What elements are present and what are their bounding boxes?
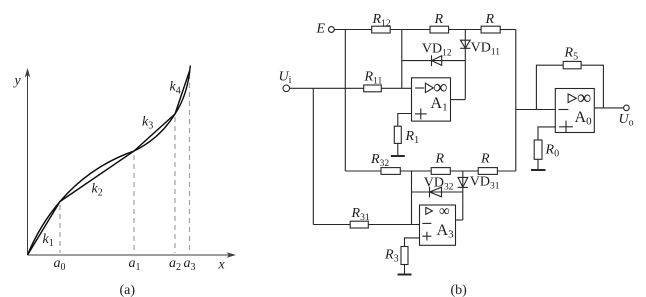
wire R3 to ground	[404, 265, 406, 275]
chord k4	[175, 71, 190, 114]
svg-text:k1: k1	[43, 232, 54, 249]
svg-text:VD32: VD32	[424, 176, 454, 193]
svg-text:(a): (a)	[120, 283, 136, 297]
wire summing vertical	[515, 30, 517, 172]
diode VD11	[460, 40, 470, 48]
resistor R (top right)	[481, 26, 500, 33]
x-axis	[28, 252, 237, 258]
svg-text:R: R	[485, 12, 495, 27]
svg-text:∞: ∞	[439, 203, 450, 219]
svg-text:VD12: VD12	[422, 42, 452, 59]
wire R12 to node	[390, 29, 430, 31]
resistor R31	[350, 221, 368, 228]
resistor R0	[534, 140, 542, 159]
svg-text:VD31: VD31	[470, 175, 500, 192]
resistor R5	[563, 61, 581, 68]
svg-text:VD11: VD11	[471, 41, 501, 58]
wire A0 plus input	[538, 127, 555, 140]
svg-text:∞: ∞	[433, 77, 447, 99]
svg-text:R12: R12	[372, 12, 391, 29]
svg-text:Uo: Uo	[619, 112, 634, 129]
wire A1 plus input	[398, 114, 412, 127]
resistor R (top left)	[430, 26, 449, 33]
wire A3 output	[456, 219, 463, 221]
resistor R1	[394, 126, 401, 143]
node a0 dashed line	[59, 205, 61, 253]
svg-text:R11: R11	[364, 70, 383, 87]
wire R1 to ground	[397, 143, 399, 156]
node a2 dashed line	[174, 117, 176, 253]
svg-text:a0: a0	[54, 256, 66, 273]
terminal Ui circle	[283, 85, 290, 92]
wire vertical E branch	[344, 30, 346, 172]
wire vertical R12 node down	[401, 30, 403, 89]
op-amp A3	[420, 205, 456, 245]
resistor R3	[401, 247, 408, 265]
wire A0 output	[594, 107, 623, 109]
svg-text:A3: A3	[437, 222, 455, 241]
terminal Uo circle	[624, 105, 630, 111]
wire A3 plus input	[405, 238, 420, 247]
y-axis	[25, 68, 31, 255]
ground (R1)	[391, 155, 405, 157]
wire vertical R32 node down	[411, 171, 413, 225]
ground (R3)	[398, 274, 412, 276]
svg-text:E: E	[316, 22, 326, 37]
svg-text:x: x	[218, 258, 226, 273]
svg-text:R0: R0	[545, 143, 560, 160]
svg-text:k4: k4	[170, 80, 181, 97]
svg-text:R: R	[434, 12, 444, 27]
wire between bottom R resistors	[450, 170, 478, 172]
svg-text:R1: R1	[405, 129, 420, 146]
wire R5 feedback left	[536, 65, 563, 109]
svg-text:R32: R32	[370, 152, 389, 169]
wire R0 to ground	[537, 159, 539, 170]
node a3 dashed line	[189, 74, 191, 253]
wire summing node to A0	[516, 109, 556, 111]
resistor R32	[381, 168, 400, 175]
wire vertical VD31 branch	[462, 171, 464, 220]
chord k3	[134, 114, 175, 151]
svg-text:R5: R5	[564, 46, 579, 63]
wire vertical Ui branch	[312, 88, 314, 224]
chord k2	[60, 151, 134, 202]
ground (R0)	[531, 169, 546, 171]
wire between top R resistors	[449, 29, 482, 31]
smooth curve	[28, 66, 191, 256]
svg-text:R3: R3	[384, 248, 399, 265]
wire Ui row	[290, 87, 364, 89]
op-amp A0	[555, 89, 594, 133]
svg-text:∞: ∞	[577, 87, 591, 109]
wire R32 row	[345, 170, 381, 172]
wire R5 feedback right	[581, 65, 603, 108]
diode VD12	[402, 55, 466, 66]
op-amp A1	[412, 78, 451, 121]
wire bottom R to summing vertical	[497, 170, 515, 172]
svg-text:A0: A0	[575, 109, 593, 128]
resistor R12	[372, 26, 391, 33]
svg-text:(b): (b)	[451, 283, 468, 297]
svg-text:R31: R31	[351, 206, 370, 223]
resistor R11	[364, 85, 382, 92]
chord k1	[28, 202, 61, 256]
svg-text:R: R	[435, 152, 445, 167]
terminal E circle	[329, 27, 335, 33]
wire R31 to A3	[368, 224, 419, 226]
wire A1 output	[451, 99, 466, 101]
svg-text:a1: a1	[129, 256, 141, 273]
resistor R (bottom left)	[431, 168, 450, 175]
wire R to summing vertical	[500, 29, 516, 31]
wire R32 to R	[400, 170, 431, 172]
node a1 dashed line	[133, 155, 135, 253]
svg-text:Ui: Ui	[279, 70, 292, 87]
diode VD32	[412, 187, 463, 198]
wire vertical VD11 branch	[464, 30, 466, 100]
svg-text:k3: k3	[142, 115, 153, 132]
svg-text:a3: a3	[184, 256, 196, 273]
wire E row	[334, 29, 371, 31]
svg-text:a2: a2	[169, 256, 181, 273]
svg-text:R: R	[480, 152, 490, 167]
wire R31 row	[313, 224, 350, 226]
resistor R (bottom right)	[478, 168, 497, 175]
wire R11 to A1	[381, 87, 411, 89]
svg-text:y: y	[13, 74, 22, 89]
svg-text:k2: k2	[92, 182, 103, 199]
diode VD31	[458, 177, 468, 187]
